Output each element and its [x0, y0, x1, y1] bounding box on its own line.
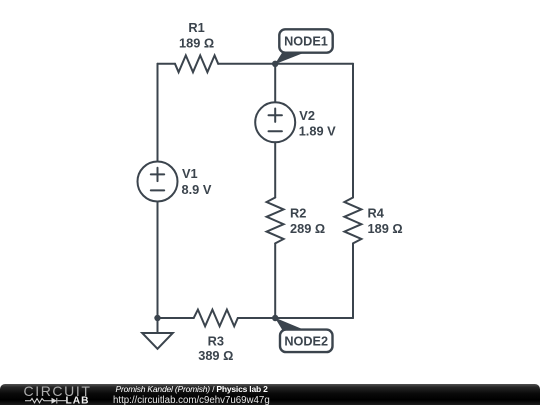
credit line 1: [116, 384, 268, 394]
svg-text:LAB: LAB: [66, 396, 90, 405]
wire top-left horizontal segment: [158, 63, 176, 65]
node NODE1 flag: [275, 29, 333, 64]
wire middle vertical mid: [274, 142, 276, 197]
node dot NODE1: [272, 61, 278, 67]
node NODE2 flag: [275, 318, 333, 353]
value 1.89 V (V2): [299, 124, 336, 139]
node dot NODE2: [272, 315, 278, 321]
wire middle vertical bottom: [274, 243, 276, 318]
junction dot at ground: [154, 315, 160, 321]
resistor R4: [344, 198, 361, 244]
wire left vertical lower: [157, 202, 159, 319]
CircuitLab logo: [0, 383, 110, 405]
wire bottom middle segment: [238, 317, 275, 319]
svg-text:R1: R1: [188, 20, 204, 35]
value 8.9 V (V1): [182, 182, 212, 197]
svg-text:R4: R4: [368, 205, 385, 220]
voltage source V1: [138, 162, 178, 202]
wire top right segment: [275, 63, 353, 65]
value 289 ohm (R2): [290, 221, 325, 236]
svg-text:189 Ω: 189 Ω: [179, 35, 214, 50]
svg-text:389 Ω: 389 Ω: [198, 348, 233, 363]
wire right vertical upper: [352, 64, 354, 198]
ground: [142, 318, 173, 349]
resistor R1: [175, 55, 218, 72]
svg-text:V2: V2: [299, 108, 315, 123]
label V2: [299, 108, 315, 123]
svg-text:189 Ω: 189 Ω: [368, 221, 403, 236]
value 189 ohm (R4): [368, 221, 403, 236]
svg-text:NODE1: NODE1: [284, 35, 328, 49]
resistor R3: [194, 310, 238, 327]
svg-text:1.89 V: 1.89 V: [299, 124, 336, 139]
footer bar: [0, 384, 540, 406]
value 189 ohm (R1): [179, 35, 214, 50]
label R4: [368, 205, 385, 220]
label R3: [208, 334, 224, 349]
svg-text:NODE2: NODE2: [284, 335, 328, 349]
wire left vertical upper: [157, 64, 159, 162]
wire bottom-left segment: [158, 317, 194, 319]
voltage source V2: [255, 102, 295, 142]
svg-text:8.9 V: 8.9 V: [182, 182, 212, 197]
svg-text:R3: R3: [208, 334, 224, 349]
value 389 ohm (R3): [198, 348, 233, 363]
label V1: [182, 166, 198, 181]
svg-text:R2: R2: [290, 205, 306, 220]
label R1: [188, 20, 204, 35]
svg-text:289 Ω: 289 Ω: [290, 221, 325, 236]
wire middle vertical upper: [274, 64, 276, 103]
svg-text:V1: V1: [182, 166, 198, 181]
credit line 2: [113, 395, 270, 406]
wire bottom right segment: [275, 317, 353, 319]
wire top middle segment: [218, 63, 275, 65]
label R2: [290, 205, 306, 220]
resistor R2: [267, 198, 284, 244]
wire right vertical lower: [352, 243, 354, 318]
